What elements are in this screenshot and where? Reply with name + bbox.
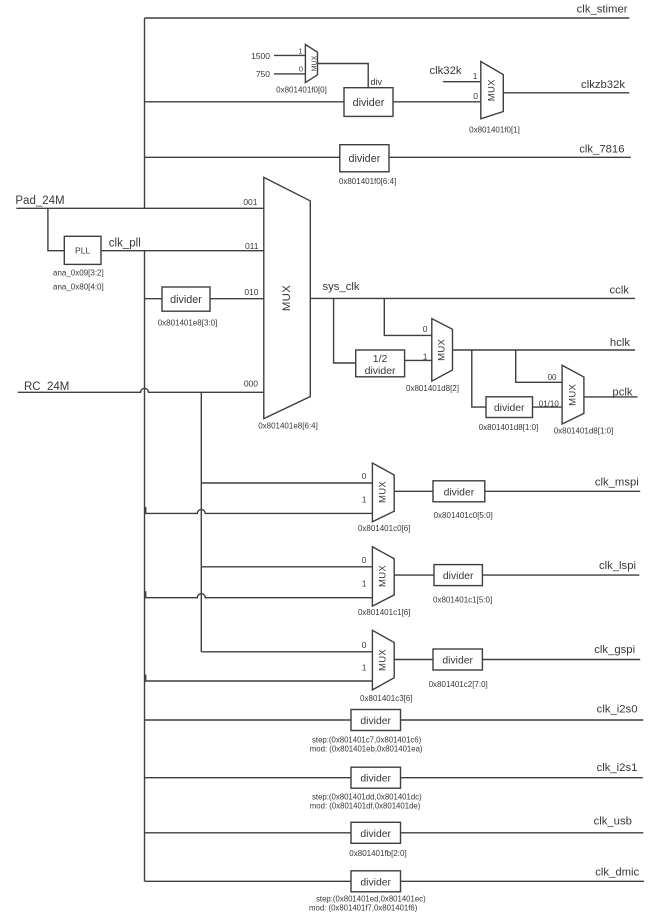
wire Pad_24M xyxy=(16,207,263,209)
svg-text:clk_lspi: clk_lspi xyxy=(599,560,636,572)
wire gspi mux out xyxy=(394,659,433,661)
svg-text:divider: divider xyxy=(348,153,380,165)
svg-text:RC_24M: RC_24M xyxy=(24,381,69,393)
svg-text:1: 1 xyxy=(473,71,478,81)
mux U8 0x801401c1[6] xyxy=(372,547,394,606)
divider D2 0x801401f0[6:4] xyxy=(340,145,389,172)
wire gspi input 0 from bus2 corner xyxy=(201,651,372,653)
divider D7 0x801401c1[5:0] xyxy=(434,565,482,586)
junction tick lspi xyxy=(144,591,146,598)
svg-text:1/2: 1/2 xyxy=(373,353,388,365)
wire lspi input 0 from bus2 xyxy=(201,566,372,568)
wire drop to 1/2 divider xyxy=(334,298,356,363)
svg-text:0x801401f0[0]: 0x801401f0[0] xyxy=(276,86,327,95)
wire e8 divider row input xyxy=(145,298,163,300)
divider D11 usb xyxy=(351,822,401,843)
svg-text:0: 0 xyxy=(473,91,478,101)
wire clk_lspi xyxy=(482,574,639,576)
wire clk_usb right xyxy=(401,832,644,834)
wire clk_7816 row left xyxy=(145,156,340,158)
wire clk_mspi xyxy=(485,490,640,492)
wire pclk xyxy=(584,396,638,398)
wire clk_pll xyxy=(101,250,264,252)
svg-text:Pad_24M: Pad_24M xyxy=(15,195,64,207)
svg-text:0x801401f0[6:4]: 0x801401f0[6:4] xyxy=(339,177,396,186)
divider D9 i2s0 xyxy=(351,710,401,731)
svg-text:clk32k: clk32k xyxy=(430,65,462,77)
svg-text:750: 750 xyxy=(256,69,270,79)
wire f0 divider row output to MUX f0[1] xyxy=(393,101,481,103)
svg-text:0: 0 xyxy=(362,555,367,565)
svg-text:1: 1 xyxy=(298,47,302,56)
wire mspi input 1 from bus1 with hop over bus2 xyxy=(145,509,373,513)
svg-text:0: 0 xyxy=(362,640,367,650)
svg-text:sys_clk: sys_clk xyxy=(323,281,360,293)
divider D1 xyxy=(344,88,393,117)
wire drop to d8 divider xyxy=(472,350,486,407)
svg-text:MUX: MUX xyxy=(378,649,389,671)
svg-text:clk_stimer: clk_stimer xyxy=(577,4,628,16)
svg-text:MUX: MUX xyxy=(311,55,318,71)
svg-text:clk_usb: clk_usb xyxy=(594,816,632,828)
svg-text:0x801401f0[1]: 0x801401f0[1] xyxy=(469,125,520,134)
svg-text:0x801401c1[6]: 0x801401c1[6] xyxy=(358,608,411,617)
divider D3 0x801401e8[3:0] xyxy=(162,287,210,311)
svg-text:divider: divider xyxy=(360,877,391,888)
svg-text:mod: (0x801401df,0x801401de): mod: (0x801401df,0x801401de) xyxy=(310,802,421,811)
wire clk_i2s0 left xyxy=(145,719,352,721)
mux U6 pclk 0x801401d8[1:0] xyxy=(562,365,584,424)
svg-text:0x801401e8[6:4]: 0x801401e8[6:4] xyxy=(258,422,318,431)
wire lspi input 1 from bus1 with hop over bus2 xyxy=(145,594,373,598)
svg-text:01/10: 01/10 xyxy=(539,400,560,409)
mux U1 0x801401f0[0] xyxy=(305,45,317,83)
svg-text:0: 0 xyxy=(423,324,428,334)
svg-text:clk_gspi: clk_gspi xyxy=(594,644,635,656)
divider D4 (1/2 divider) xyxy=(356,350,405,377)
svg-text:ana_0x09[3:2]: ana_0x09[3:2] xyxy=(53,269,104,278)
mux U4 0x801401e8[6:4] (main system mux) xyxy=(264,177,311,418)
svg-text:0x801401d8[1:0]: 0x801401d8[1:0] xyxy=(479,423,539,432)
mux U9 0x801401c3[6] xyxy=(372,630,394,690)
svg-text:0x801401fb[2:0]: 0x801401fb[2:0] xyxy=(349,849,406,858)
junction tick mspi xyxy=(144,507,146,514)
wire bus2 vertical (RC_24M branch) xyxy=(200,392,202,652)
svg-text:clk_dmic: clk_dmic xyxy=(595,867,639,879)
wire gspi input 1 from bus1 xyxy=(145,680,373,682)
wire clk_gspi xyxy=(482,659,640,661)
wire e8 divider row output to MUX 010 xyxy=(210,298,264,300)
svg-text:divider: divider xyxy=(443,571,474,582)
svg-text:001: 001 xyxy=(243,197,257,207)
svg-text:00: 00 xyxy=(548,373,557,382)
svg-text:cclk: cclk xyxy=(610,284,630,296)
wire bus1 lower vertical (clk_pll branch) xyxy=(144,251,146,882)
svg-text:divider: divider xyxy=(494,403,525,414)
divider D10 i2s1 xyxy=(351,767,401,788)
svg-text:1: 1 xyxy=(362,662,367,672)
wire f0 divider row input xyxy=(145,101,345,103)
svg-text:ana_0x80[4:0]: ana_0x80[4:0] xyxy=(53,282,104,291)
svg-text:0x801401e8[3:0]: 0x801401e8[3:0] xyxy=(158,319,218,328)
wire lspi mux out xyxy=(394,574,434,576)
mux U2 0x801401f0[1] xyxy=(481,62,504,119)
svg-text:mod: (0x801401f7,0x801401f6): mod: (0x801401f7,0x801401f6) xyxy=(309,904,418,913)
svg-text:0x801401c3[6]: 0x801401c3[6] xyxy=(360,694,413,703)
wire bus1 top vertical (Pad_24M branch) xyxy=(144,18,146,208)
svg-text:clk_7816: clk_7816 xyxy=(579,143,624,155)
wire clk_usb left xyxy=(145,832,352,834)
divider D12 dmic xyxy=(351,871,401,892)
svg-text:MUX: MUX xyxy=(378,565,389,587)
svg-text:MUX: MUX xyxy=(486,79,497,101)
wire 1/2 divider output to mux input 1 xyxy=(405,359,432,361)
wire 750 input xyxy=(274,73,305,75)
wire drop to mux d8[2] input 0 xyxy=(384,298,432,335)
wire 1500 input xyxy=(274,54,305,56)
wire clk_dmic right xyxy=(401,880,645,882)
wire clkzb32k output xyxy=(503,92,629,94)
svg-text:PLL: PLL xyxy=(75,246,90,256)
wire clk_i2s0 right xyxy=(401,719,644,721)
svg-text:divider: divider xyxy=(442,656,473,667)
svg-text:010: 010 xyxy=(244,287,258,297)
wire PLL input drop xyxy=(48,208,64,250)
svg-text:divider: divider xyxy=(170,294,202,306)
svg-text:pclk: pclk xyxy=(612,386,632,398)
wire mspi input 0 from bus2 xyxy=(201,482,372,484)
svg-text:divider: divider xyxy=(444,487,475,498)
svg-text:MUX: MUX xyxy=(378,481,389,503)
divider D5 0x801401d8[1:0] xyxy=(486,397,533,418)
svg-text:0x801401c0[5:0]: 0x801401c0[5:0] xyxy=(434,511,493,520)
junction tick gspi xyxy=(144,675,146,682)
wire clk_dmic left (bus1 corner) xyxy=(145,880,352,882)
svg-text:hclk: hclk xyxy=(610,337,630,349)
svg-text:0: 0 xyxy=(299,64,303,73)
wire sys_clk / cclk xyxy=(310,297,635,299)
svg-text:1: 1 xyxy=(362,495,367,505)
wire RC_24M with hop over bus1 xyxy=(18,388,264,392)
svg-text:1500: 1500 xyxy=(251,51,270,61)
svg-text:000: 000 xyxy=(244,379,258,389)
divider D6 0x801401c0[5:0] xyxy=(433,481,485,502)
wire U1 output to divider D1 xyxy=(318,64,369,88)
svg-text:clkzb32k: clkzb32k xyxy=(581,79,625,91)
wire clk_i2s1 left xyxy=(145,777,352,779)
svg-text:divider: divider xyxy=(360,716,391,727)
svg-text:mod: (0x801401eb,0x801401ea): mod: (0x801401eb,0x801401ea) xyxy=(310,744,423,753)
svg-text:1: 1 xyxy=(362,579,367,589)
svg-text:0x801401c1[5:0]: 0x801401c1[5:0] xyxy=(433,595,492,604)
svg-text:step:(0x801401c7,0x801401c6): step:(0x801401c7,0x801401c6) xyxy=(312,735,422,744)
divider D8 0x801401c2[7:0] xyxy=(433,649,482,670)
svg-text:0: 0 xyxy=(362,471,367,481)
svg-text:clk_mspi: clk_mspi xyxy=(595,476,639,488)
svg-text:0x801401c0[6]: 0x801401c0[6] xyxy=(358,524,411,533)
wire mspi mux out xyxy=(394,490,433,492)
mux U7 0x801401c0[6] xyxy=(372,463,394,522)
svg-text:MUX: MUX xyxy=(437,338,448,360)
svg-text:divider: divider xyxy=(353,97,385,109)
svg-text:divider: divider xyxy=(360,774,391,785)
wire clk_stimer xyxy=(145,17,630,19)
mux U5 0x801401d8[2] xyxy=(432,319,453,382)
svg-text:clk_i2s0: clk_i2s0 xyxy=(597,703,638,715)
svg-text:divider: divider xyxy=(360,829,391,840)
wire d8 divider output to pclk mux xyxy=(533,406,563,408)
svg-text:div: div xyxy=(371,77,383,87)
wire clk_i2s1 right xyxy=(401,777,643,779)
wire hclk xyxy=(453,349,636,351)
svg-text:divider: divider xyxy=(365,365,396,377)
wire clk32k input xyxy=(443,81,481,83)
wire drop to pclk mux input 00 xyxy=(516,350,562,382)
svg-text:0x801401c2[7:0]: 0x801401c2[7:0] xyxy=(429,680,488,689)
svg-text:step:(0x801401ed,0x801401ec): step:(0x801401ed,0x801401ec) xyxy=(316,894,426,903)
wire clk_7816 row right xyxy=(389,156,631,158)
svg-text:step:(0x801401dd,0x801401dc): step:(0x801401dd,0x801401dc) xyxy=(312,793,422,802)
svg-text:MUX: MUX xyxy=(567,383,578,405)
svg-text:MUX: MUX xyxy=(281,285,293,311)
svg-text:clk_i2s1: clk_i2s1 xyxy=(597,762,638,774)
svg-text:0x801401d8[1:0]: 0x801401d8[1:0] xyxy=(554,427,614,436)
PLL U3 xyxy=(64,236,101,264)
svg-text:011: 011 xyxy=(245,241,259,251)
svg-text:1: 1 xyxy=(423,352,428,362)
svg-text:0x801401d8[2]: 0x801401d8[2] xyxy=(406,384,459,393)
svg-text:clk_pll: clk_pll xyxy=(109,238,141,250)
